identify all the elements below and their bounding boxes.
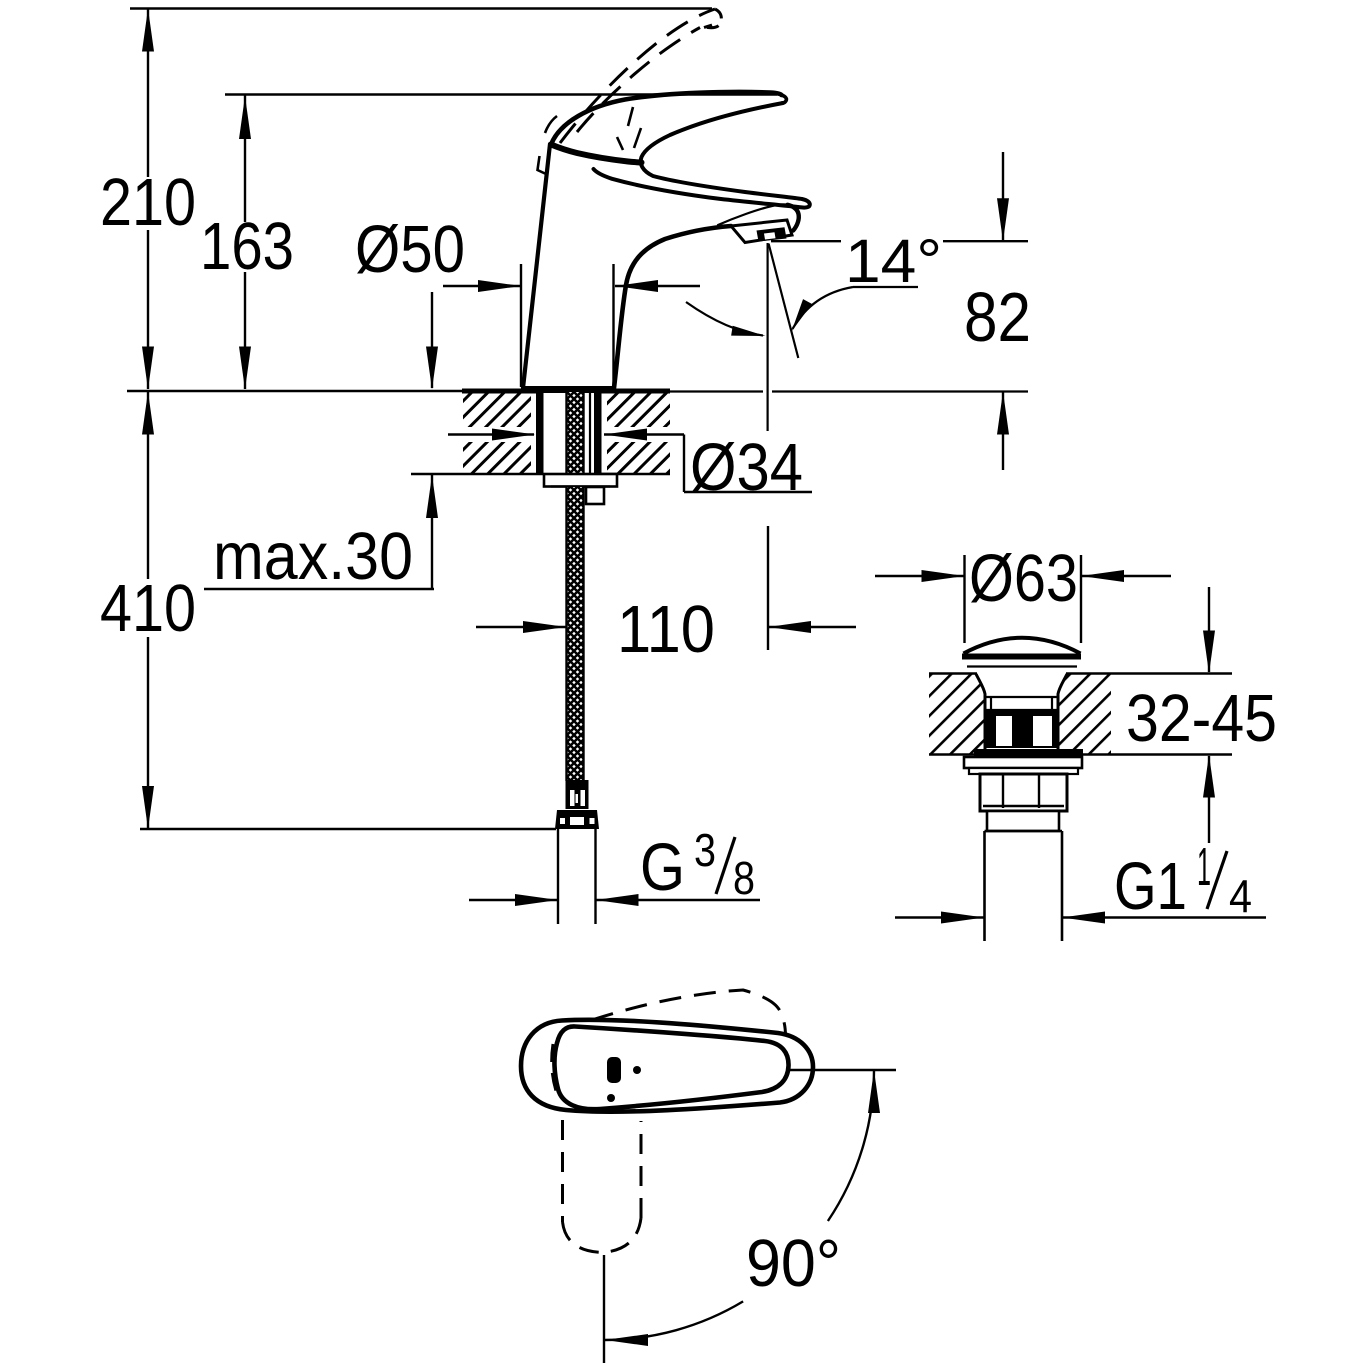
svg-text:90°: 90° bbox=[746, 1226, 841, 1301]
svg-text:8: 8 bbox=[733, 852, 755, 904]
svg-text:1: 1 bbox=[1197, 837, 1211, 897]
svg-text:4: 4 bbox=[1229, 870, 1252, 922]
svg-text:max.30: max.30 bbox=[213, 519, 413, 594]
svg-text:3: 3 bbox=[694, 824, 716, 876]
svg-text:G1: G1 bbox=[1114, 849, 1187, 924]
svg-text:Ø50: Ø50 bbox=[355, 212, 465, 287]
svg-text:210: 210 bbox=[100, 165, 196, 240]
svg-text:G: G bbox=[640, 830, 685, 905]
svg-text:Ø63: Ø63 bbox=[969, 541, 1078, 616]
svg-text:110: 110 bbox=[617, 592, 715, 667]
svg-text:82: 82 bbox=[964, 278, 1031, 356]
svg-text:163: 163 bbox=[200, 209, 294, 284]
svg-text:Ø34: Ø34 bbox=[690, 430, 803, 505]
svg-text:14°: 14° bbox=[845, 227, 942, 295]
svg-text:32-45: 32-45 bbox=[1126, 681, 1277, 756]
svg-text:410: 410 bbox=[100, 571, 196, 646]
